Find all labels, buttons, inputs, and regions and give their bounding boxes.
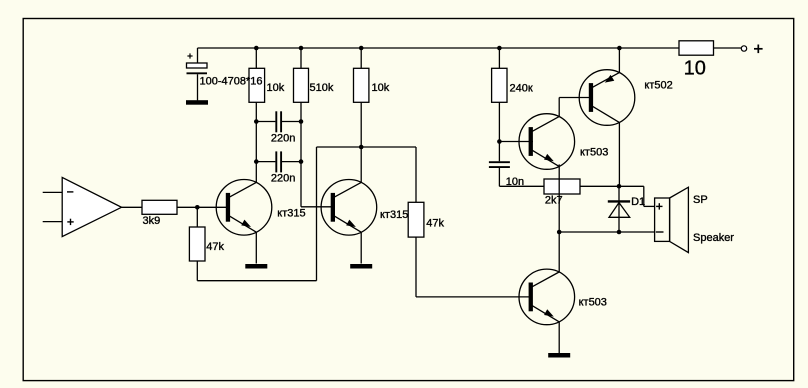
diode D1 triangle xyxy=(609,203,630,218)
resistor R7 47k xyxy=(408,202,424,237)
wire feedback R6 bottom to Q2 collector node xyxy=(196,261,198,281)
junction dot Q2 collector node xyxy=(359,145,364,150)
junction dot output node xyxy=(557,230,562,235)
transistor Q4 kt503 xyxy=(519,114,575,170)
svg-text:D1: D1 xyxy=(631,196,645,208)
svg-text:10: 10 xyxy=(684,58,706,80)
capacitor C1 100-470uF wires xyxy=(197,48,199,63)
diode D1 cathode bar xyxy=(608,200,630,202)
op-amp U1 inverting input wire xyxy=(43,191,63,193)
wire power rail xyxy=(198,47,680,49)
output terminal xyxy=(741,46,746,51)
transistor Q1 kt315 xyxy=(216,180,272,236)
svg-text:100-4708*16: 100-4708*16 xyxy=(200,75,263,87)
svg-text:240к: 240к xyxy=(510,82,533,94)
svg-text:220n: 220n xyxy=(271,173,295,185)
output plus sign xyxy=(754,48,763,50)
wire Q3 emitter to ground xyxy=(558,322,560,353)
junction dot D1 bottom xyxy=(617,230,622,235)
svg-text:47k: 47k xyxy=(206,241,224,253)
resistor R8 2k7 xyxy=(544,179,580,194)
resistor R1 10k wires xyxy=(255,48,257,68)
wire D1 node to speaker plus xyxy=(619,185,644,187)
capacitor C1 plus xyxy=(187,55,192,57)
junction dot R4/C4/Q4 xyxy=(497,139,502,144)
svg-text:кт502: кт502 xyxy=(644,79,672,91)
svg-text:2k7: 2k7 xyxy=(545,195,563,207)
wire node to R6 xyxy=(196,207,198,227)
svg-text:10n: 10n xyxy=(506,176,524,188)
junction dots on power rail xyxy=(254,46,259,51)
resistor R4 240k wires xyxy=(498,48,500,68)
wire R7 to Q3 base xyxy=(415,237,417,297)
transistor Q2 kt315 xyxy=(321,180,377,236)
resistor R4 240k xyxy=(492,68,507,102)
speaker minus sign xyxy=(656,231,664,233)
wire Q2 collector node horizontal xyxy=(317,146,417,148)
capacitor C2 220n plates xyxy=(275,111,277,132)
resistor R6 47k xyxy=(189,227,205,261)
ground below Q3 xyxy=(548,353,570,358)
svg-text:10k: 10k xyxy=(372,82,390,94)
wire op-amp output xyxy=(122,206,143,208)
svg-text:кт503: кт503 xyxy=(580,147,608,159)
wire R5 to Q1 base xyxy=(177,206,228,208)
wire Q4 emitter to Q3 collector xyxy=(558,164,560,272)
resistor R3 10k wires xyxy=(360,48,362,68)
junction dots C2 xyxy=(254,119,259,124)
wire Q4 collector to Q5 base xyxy=(558,98,560,117)
resistor R2 510k wires xyxy=(300,48,302,68)
svg-text:кт503: кт503 xyxy=(579,297,607,309)
wire rail to terminal xyxy=(714,47,742,49)
ground below Q1 xyxy=(245,264,267,269)
ground below C1 xyxy=(186,100,208,105)
svg-text:Speaker: Speaker xyxy=(693,232,734,244)
wire Q2 emitter to ground xyxy=(360,232,362,263)
svg-text:47k: 47k xyxy=(426,218,444,230)
junction dot D1 top xyxy=(617,184,622,189)
resistor R3 10k xyxy=(354,68,369,102)
capacitor C3 220n plates xyxy=(275,151,277,172)
wire D1 vertical xyxy=(618,186,620,232)
wire C4 bottom xyxy=(498,168,500,186)
svg-text:10k: 10k xyxy=(267,82,285,94)
capacitor C4 10n plates xyxy=(489,161,510,163)
wire 2k7 right to D1 node xyxy=(580,185,619,187)
capacitor C1 plates xyxy=(187,63,208,68)
op-amp U1 xyxy=(62,177,121,236)
svg-text:220n: 220n xyxy=(271,133,295,145)
wire Q2 node to R7 xyxy=(415,147,417,202)
resistor R2 510k xyxy=(294,68,309,102)
speaker SP box xyxy=(655,198,670,241)
node dot R5/R6/Q1 xyxy=(195,205,200,210)
op-amp U1 plus sign xyxy=(67,221,73,223)
resistor R9 10 xyxy=(679,41,714,55)
svg-text:кт315: кт315 xyxy=(277,207,305,219)
svg-text:кт315: кт315 xyxy=(380,209,408,221)
svg-text:3k9: 3k9 xyxy=(143,215,161,227)
transistor Q3 kt503 xyxy=(519,269,575,325)
svg-text:510k: 510k xyxy=(310,82,334,94)
ground below Q2 xyxy=(350,264,372,269)
capacitor C3 220n wires xyxy=(256,161,275,163)
speaker SP horn xyxy=(670,187,689,252)
wire Q5 emitter to rail xyxy=(618,48,620,73)
resistor R1 10k xyxy=(249,68,265,102)
svg-text:SP: SP xyxy=(693,194,708,206)
wire Q5 collector to D1 node xyxy=(618,122,620,186)
wire R4 to Q4 base xyxy=(499,141,533,143)
op-amp U1 non-inverting input wire xyxy=(43,221,63,223)
speaker plus sign xyxy=(656,205,662,207)
transistor Q5 kt502 xyxy=(579,70,635,126)
junction dots C3 xyxy=(254,159,259,164)
resistor R5 3k9 xyxy=(142,200,177,214)
capacitor C2 220n wires xyxy=(256,121,275,123)
wire Q1 emitter to ground xyxy=(255,232,257,263)
op-amp U1 minus sign xyxy=(67,191,73,193)
wire output node to speaker bottom xyxy=(559,231,654,233)
